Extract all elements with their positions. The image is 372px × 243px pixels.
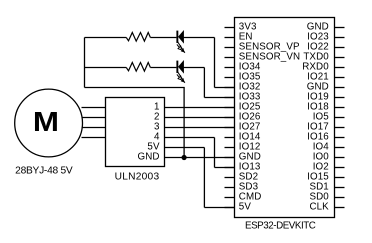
- ESP32 right pin IO21: [307, 72, 344, 83]
- ESP32 right pin SD1: [309, 182, 344, 193]
- wire ULN2003 5V to ESP32 5V (horizontal run): [165, 147, 205, 149]
- ESP32 left pin SD3: [225, 182, 259, 193]
- ESP32 right pin IO23: [307, 32, 344, 43]
- LED LED1 (anode triangle): [178, 31, 183, 43]
- resistor R2: [126, 63, 150, 72]
- resistor R1: [126, 33, 150, 42]
- ESP32 right pin IO16: [307, 132, 344, 143]
- ULN2003 pin label 2: [154, 112, 160, 123]
- ESP32 left pin IO34: [225, 62, 261, 73]
- ESP32 right pin IO18: [307, 102, 344, 113]
- wire LED2 anode to IO33: [204, 97, 234, 99]
- ESP32 left pin IO35: [225, 72, 261, 83]
- ESP32 left pin 5V: [225, 202, 252, 213]
- svg-text:GND: GND: [138, 152, 160, 163]
- ESP32 left pin IO25: [225, 102, 261, 113]
- wire ULN2003 pin2 to IO26: [165, 117, 235, 119]
- svg-text:5V: 5V: [239, 202, 252, 213]
- ESP32 left pin GND: [225, 152, 261, 163]
- ESP32 left pin IO32: [225, 82, 261, 93]
- ESP32 left pin IO13: [225, 162, 261, 173]
- svg-text:ESP32-DEVKITC: ESP32-DEVKITC: [245, 220, 316, 231]
- wire ULN2003 pin3 to IO27: [165, 127, 235, 129]
- wire GND bus to R2: [85, 67, 127, 69]
- ESP32 right pin GND: [307, 22, 345, 33]
- ESP32 right pin IO2: [313, 162, 345, 173]
- wire motor coil 2 to ULN2003 input: [82, 117, 106, 119]
- ESP32 left pin EN: [225, 32, 253, 43]
- wire LED1 anode to IO32: [215, 87, 235, 89]
- LED LED1 (cathode bar): [176, 31, 178, 43]
- ESP32 right pin IO19: [307, 92, 344, 103]
- svg-text:M: M: [33, 106, 59, 137]
- ESP32 right pin IO15: [307, 172, 344, 183]
- motor value label 28BYJ-48 5V: [15, 165, 73, 176]
- ESP32 left pin IO27: [225, 122, 261, 133]
- ULN2003 pin label 3: [154, 122, 160, 133]
- ESP32 right pin GND: [307, 82, 345, 93]
- ESP32 left pin SENSOR_VP: [225, 42, 300, 53]
- motor M1 (28BYJ-48 stepper): [15, 89, 83, 157]
- ESP32 left pin SD2: [225, 172, 259, 183]
- microcontroller U1 ESP32-DEVKITC body: [235, 18, 335, 218]
- part label ULN2003: [115, 171, 160, 182]
- driver IC U2 ULN2003 body: [106, 98, 165, 167]
- junction dot on GND net: [182, 155, 187, 160]
- ESP32 right pin IO17: [307, 122, 344, 133]
- wire LED1 anode drop: [214, 38, 216, 88]
- ESP32 left pin CMD: [225, 192, 262, 203]
- LED LED2 light emission arrows: [177, 72, 185, 83]
- wire ULN2003 pin4 to IO13 (horizontal run): [165, 137, 215, 139]
- wire ULN2003 5V to ESP32 5V (vertical drop): [203, 148, 205, 208]
- ESP32 right pin CLK: [309, 202, 344, 213]
- ESP32 left pin 3V3: [225, 22, 257, 33]
- part label ESP32-DEVKITC: [245, 220, 316, 231]
- ESP32 right pin IO4: [313, 142, 345, 153]
- ESP32 left pin IO14: [225, 132, 261, 143]
- wire LED1 anode (horizontal run): [184, 37, 215, 39]
- ULN2003 pin label 4: [154, 132, 160, 143]
- ULN2003 pin label 1: [154, 102, 160, 113]
- wire ULN2003 5V to ESP32 5V (into pin): [204, 207, 234, 209]
- LED LED2 (anode triangle): [178, 61, 183, 73]
- ESP32 right pin TXD0: [303, 52, 344, 63]
- wire LED2 anode (horizontal run): [184, 67, 205, 69]
- ESP32 right pin IO22: [307, 42, 344, 53]
- wire R1 to LED1 cathode: [150, 37, 176, 39]
- ESP32 left pin IO12: [225, 142, 261, 153]
- wire ULN2003 pin4 to IO13 (vertical drop): [214, 138, 216, 168]
- wire LED cathode bus (horizontal): [85, 87, 185, 89]
- wire motor coil 1 to ULN2003 input: [82, 107, 106, 109]
- LED LED2 (cathode bar): [176, 61, 178, 73]
- ESP32 left pin SENSOR_VN: [225, 52, 301, 63]
- ESP32 left pin IO26: [225, 112, 261, 123]
- wire motor coil 3 to ULN2003 input: [82, 127, 106, 129]
- ESP32 left pin IO33: [225, 92, 261, 103]
- wire GND net: ULN2003 GND to ESP32 GND: [165, 157, 235, 159]
- ULN2003 pin label GND: [138, 152, 160, 163]
- wire R2 to LED2 cathode: [150, 67, 176, 69]
- svg-text:28BYJ-48 5V: 28BYJ-48 5V: [15, 165, 73, 176]
- wire LED cathode bus drop to GND net: [183, 88, 185, 158]
- ESP32 right pin IO0: [313, 152, 345, 163]
- LED LED1 light emission arrows: [177, 42, 185, 53]
- svg-text:CLK: CLK: [309, 202, 329, 213]
- wire LED2 anode drop: [203, 68, 205, 98]
- wire motor coil 4 to ULN2003 input: [82, 137, 106, 139]
- ESP32 right pin RXD0: [302, 62, 344, 73]
- wire GND bus to R1: [85, 37, 127, 39]
- ESP32 right pin SD0: [309, 192, 344, 203]
- ESP32 right pin IO5: [313, 112, 345, 123]
- ULN2003 pin label 5V: [147, 142, 160, 153]
- wire ULN2003 pin4 to IO13 (into pin): [215, 167, 235, 169]
- svg-text:ULN2003: ULN2003: [115, 171, 160, 182]
- wire LED cathode bus (left vertical): [84, 38, 86, 88]
- wire ULN2003 pin1 to IO25: [165, 107, 235, 109]
